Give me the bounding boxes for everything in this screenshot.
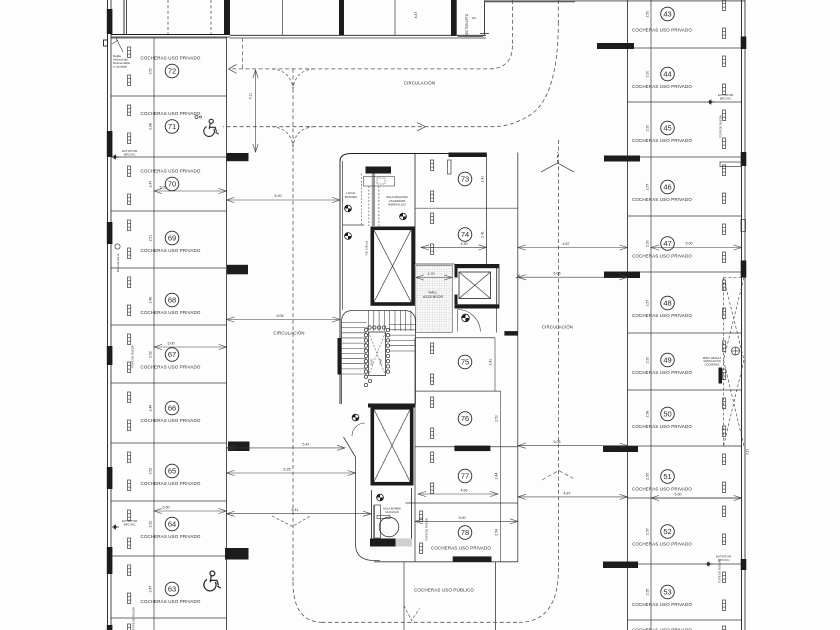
svg-text:2.52: 2.52 bbox=[149, 521, 153, 528]
svg-text:5.11: 5.11 bbox=[249, 93, 253, 99]
svg-text:3.11: 3.11 bbox=[746, 449, 750, 455]
svg-text:COCHERAS USO PRIVADO: COCHERAS USO PRIVADO bbox=[140, 169, 200, 174]
svg-text:COCHERAS USO PRIVADO: COCHERAS USO PRIVADO bbox=[632, 542, 692, 547]
svg-text:2.47: 2.47 bbox=[149, 586, 153, 593]
svg-text:73: 73 bbox=[461, 175, 469, 184]
svg-text:74: 74 bbox=[461, 230, 469, 239]
svg-text:70: 70 bbox=[168, 180, 176, 189]
svg-text:COCHERAS USO PRIVADO: COCHERAS USO PRIVADO bbox=[632, 487, 692, 492]
svg-text:2.55: 2.55 bbox=[646, 589, 650, 596]
bottom dashed arrow bbox=[404, 606, 420, 621]
hall ascensor floor bbox=[416, 266, 453, 333]
svg-text:SUBE: SUBE bbox=[371, 358, 374, 365]
fan basura 2 bbox=[345, 233, 352, 240]
svg-text:78: 78 bbox=[461, 528, 469, 537]
svg-text:P.B. 0.36 m2: P.B. 0.36 m2 bbox=[365, 240, 369, 255]
svg-text:47: 47 bbox=[663, 239, 671, 248]
stall 78 bbox=[420, 511, 499, 554]
svg-text:5.20: 5.20 bbox=[275, 194, 282, 198]
svg-text:2.46: 2.46 bbox=[149, 405, 153, 412]
fan stair door bbox=[352, 414, 359, 421]
svg-text:43: 43 bbox=[663, 10, 671, 19]
svg-text:2.52: 2.52 bbox=[149, 351, 153, 358]
stall 52 bbox=[632, 506, 726, 547]
stall 53 bbox=[632, 572, 726, 611]
svg-text:2.50: 2.50 bbox=[149, 68, 153, 75]
left aisle dim 6.41 bbox=[227, 508, 372, 516]
svg-text:72: 72 bbox=[168, 67, 176, 76]
svg-text:COCHERAS USO PRIVADO: COCHERAS USO PRIVADO bbox=[140, 481, 200, 486]
rejilla note bbox=[112, 38, 130, 69]
middle black bars bbox=[449, 153, 518, 562]
svg-text:2.41: 2.41 bbox=[489, 359, 493, 366]
right column black blocks bbox=[597, 43, 640, 568]
core sw boundary bbox=[344, 437, 381, 561]
right aisle dim 4.87 b bbox=[518, 491, 628, 499]
stall 73 bbox=[431, 160, 485, 202]
ventilation fan circle bbox=[732, 347, 740, 355]
stall 75 bbox=[431, 343, 493, 385]
stall 64 bbox=[128, 510, 201, 549]
dim 5.00 stall 47 bbox=[651, 242, 742, 251]
svg-text:2.41: 2.41 bbox=[481, 231, 485, 238]
handicap stall 71 bbox=[204, 119, 219, 136]
handicap stall 63 bbox=[204, 571, 221, 591]
svg-text:5.25: 5.25 bbox=[284, 467, 291, 471]
local basura bbox=[345, 174, 362, 227]
stall 77 bbox=[431, 452, 499, 494]
svg-text:5.06: 5.06 bbox=[554, 440, 561, 444]
svg-text:68: 68 bbox=[168, 296, 176, 305]
stall 65 bbox=[128, 452, 201, 491]
right wall niches bbox=[720, 162, 746, 232]
dim tick mid bbox=[516, 275, 520, 279]
svg-text:COCHERAS USO PRIVADO: COCHERAS USO PRIVADO bbox=[632, 197, 692, 202]
svg-text:CIRCULACIÓN: CIRCULACIÓN bbox=[542, 325, 573, 330]
svg-text:2.50: 2.50 bbox=[646, 11, 650, 18]
shaft upper bbox=[372, 228, 413, 304]
svg-text:45: 45 bbox=[663, 124, 671, 133]
svg-text:CIRCULACIÓN: CIRCULACIÓN bbox=[273, 331, 304, 336]
stall 47 bbox=[632, 224, 726, 263]
svg-text:63: 63 bbox=[168, 585, 176, 594]
svg-text:5.05: 5.05 bbox=[160, 186, 167, 190]
svg-text:2.50: 2.50 bbox=[646, 71, 650, 78]
svg-text:TOPE DE RUEDA: TOPE DE RUEDA bbox=[131, 345, 135, 368]
left aisle dim 5.05 bbox=[227, 314, 341, 322]
corner wall at sector box bbox=[480, 2, 575, 34]
svg-text:4.87: 4.87 bbox=[564, 491, 571, 495]
right aisle dim 4.87 a bbox=[518, 242, 628, 250]
svg-text:71: 71 bbox=[168, 122, 176, 131]
svg-text:BPC INC.: BPC INC. bbox=[720, 97, 732, 101]
svg-text:COCHERAS USO PRIVADO: COCHERAS USO PRIVADO bbox=[140, 365, 200, 370]
extintor right lower bbox=[706, 555, 732, 567]
top band floor slab bbox=[230, 0, 486, 38]
extintor left upper bbox=[112, 149, 138, 160]
svg-text:SECTOR APTO: SECTOR APTO bbox=[465, 13, 469, 36]
ramp projection zone bbox=[724, 278, 745, 447]
svg-text:TOPE DE RUEDA: TOPE DE RUEDA bbox=[719, 115, 723, 138]
stall 46 bbox=[632, 165, 726, 204]
left aisle centerline bbox=[293, 69, 322, 622]
svg-text:COCHERAS USO PRIVADO: COCHERAS USO PRIVADO bbox=[140, 248, 200, 253]
stall 44 bbox=[632, 56, 726, 95]
svg-text:TOPE DE RUEDA: TOPE DE RUEDA bbox=[718, 560, 722, 583]
right aisle arrow 1 bbox=[541, 163, 574, 172]
public area dashed boundary bbox=[322, 621, 520, 623]
stall 69 bbox=[128, 220, 201, 259]
svg-text:5.00: 5.00 bbox=[675, 493, 682, 497]
svg-text:COCHERAS USO PRIVADO: COCHERAS USO PRIVADO bbox=[431, 546, 491, 551]
local basura bottom wall bbox=[343, 224, 365, 226]
extintor right upper bbox=[708, 93, 734, 105]
svg-text:5.05: 5.05 bbox=[277, 314, 284, 318]
svg-text:BPC INC.: BPC INC. bbox=[124, 523, 136, 527]
fan sala bomba bbox=[377, 494, 384, 501]
svg-text:COCHERAS USO PÚBLICO: COCHERAS USO PÚBLICO bbox=[414, 587, 474, 593]
svg-text:TOPE DE RUEDA: TOPE DE RUEDA bbox=[132, 607, 136, 630]
svg-text:64: 64 bbox=[168, 520, 176, 529]
stall 72 bbox=[128, 47, 201, 86]
sala maquinas partition bbox=[372, 174, 374, 227]
sala bomba room bbox=[372, 488, 412, 546]
stall 73 74 box bbox=[415, 153, 518, 265]
svg-text:1.70: 1.70 bbox=[428, 272, 435, 276]
core left wall bbox=[338, 161, 343, 404]
stall 50 bbox=[632, 398, 726, 437]
svg-text:2.46: 2.46 bbox=[149, 297, 153, 304]
svg-text:TOPE DE RUEDA: TOPE DE RUEDA bbox=[425, 518, 429, 541]
right exterior wall bbox=[742, 0, 746, 630]
wall box detail bbox=[104, 40, 108, 46]
svg-text:4.47: 4.47 bbox=[414, 12, 418, 19]
svg-text:5.00: 5.00 bbox=[686, 242, 693, 246]
fan sala maquinas bbox=[400, 213, 407, 220]
svg-text:2.50: 2.50 bbox=[495, 415, 499, 422]
elevator shaft bbox=[455, 264, 500, 309]
shaft lower bbox=[372, 408, 411, 484]
svg-text:50: 50 bbox=[663, 410, 671, 419]
prev rejilla note bbox=[703, 356, 722, 384]
svg-text:76: 76 bbox=[461, 414, 469, 423]
svg-text:2.57: 2.57 bbox=[646, 300, 650, 307]
svg-text:2.50: 2.50 bbox=[646, 240, 650, 247]
dim 1.70 hall bbox=[416, 272, 452, 280]
core top wall bbox=[340, 154, 449, 162]
svg-text:66: 66 bbox=[168, 404, 176, 413]
svg-text:69: 69 bbox=[168, 234, 176, 243]
ramp lane dashes bbox=[168, 0, 211, 34]
partial stall below 53 bbox=[632, 626, 726, 630]
svg-text:COCHERAS USO PRIVADO: COCHERAS USO PRIVADO bbox=[632, 424, 692, 429]
stall 73 door rect bbox=[448, 160, 452, 174]
stall 49 bbox=[632, 341, 726, 380]
stall 43 bbox=[632, 0, 726, 39]
sector apto 5 box bbox=[451, 0, 485, 37]
svg-text:COCHERAS USO PRIVADO: COCHERAS USO PRIVADO bbox=[140, 111, 200, 116]
extintor left lower bbox=[112, 519, 138, 530]
stall 45 bbox=[632, 110, 726, 149]
svg-text:COCHERAS USO PRIVADO: COCHERAS USO PRIVADO bbox=[632, 28, 692, 33]
stair door swing bbox=[352, 423, 365, 436]
stall 51 bbox=[632, 454, 726, 493]
svg-text:2.68: 2.68 bbox=[149, 123, 153, 130]
svg-text:5.41: 5.41 bbox=[303, 442, 310, 446]
street edge line top bbox=[485, 0, 745, 2]
svg-text:49: 49 bbox=[663, 356, 671, 365]
svg-text:COCHERAS USO PRIVADO: COCHERAS USO PRIVADO bbox=[632, 254, 692, 259]
svg-text:COCHERAS USO PRIVADO: COCHERAS USO PRIVADO bbox=[140, 599, 200, 604]
stall 71 bbox=[128, 105, 201, 144]
middle dividers bbox=[374, 338, 518, 562]
svg-text:BAJA: BAJA bbox=[380, 359, 383, 365]
svg-text:COCHERAS USO PRIVADO: COCHERAS USO PRIVADO bbox=[140, 56, 200, 61]
stall 68 bbox=[128, 277, 201, 316]
right stall divider lines bbox=[628, 48, 742, 620]
stall 74 bbox=[431, 213, 485, 255]
left stall divider lines bbox=[111, 38, 227, 618]
svg-text:67: 67 bbox=[168, 350, 176, 359]
left stalls column lines bbox=[154, 37, 227, 630]
right wall black segments bbox=[741, 37, 747, 571]
svg-text:5.00: 5.00 bbox=[168, 342, 175, 346]
dim 5.00 stall 51 bbox=[651, 493, 742, 501]
right stalls column lines bbox=[628, 0, 652, 630]
svg-text:77: 77 bbox=[461, 472, 469, 481]
svg-text:HIDRAULICO: HIDRAULICO bbox=[388, 203, 407, 207]
svg-text:CIRCULACIÓN: CIRCULACIÓN bbox=[404, 81, 435, 86]
svg-text:COCHERAS USO PRIVADO: COCHERAS USO PRIVADO bbox=[632, 138, 692, 143]
stall 70 bbox=[128, 166, 201, 205]
stall 76 bbox=[431, 397, 499, 439]
stall 67 bbox=[128, 334, 201, 373]
svg-text:53: 53 bbox=[663, 588, 671, 597]
partial bottom stall wheel stop bbox=[128, 624, 131, 630]
svg-text:CLOACAS: CLOACAS bbox=[385, 510, 399, 514]
svg-text:4.87: 4.87 bbox=[563, 242, 570, 246]
left column black blocks bbox=[225, 153, 250, 560]
svg-text:75: 75 bbox=[461, 358, 469, 367]
svg-text:COCHERAS USO PRIVADO: COCHERAS USO PRIVADO bbox=[140, 418, 200, 423]
fan below elevator bbox=[462, 314, 470, 322]
svg-text:COCHERAS USO PRIVADO: COCHERAS USO PRIVADO bbox=[632, 84, 692, 89]
aisle width dim 5.11 bbox=[249, 70, 259, 152]
svg-text:COCHERAS: COCHERAS bbox=[705, 362, 720, 366]
svg-text:5.00: 5.00 bbox=[459, 516, 466, 520]
svg-text:2.41: 2.41 bbox=[481, 176, 485, 183]
right aisle dim 5.06 b bbox=[518, 440, 628, 448]
sala maquinas wall top bbox=[366, 167, 392, 174]
dim 5.00 stall 67 bbox=[154, 342, 227, 350]
svg-text:HALL: HALL bbox=[429, 291, 438, 295]
sala bomba gray strip bbox=[396, 539, 413, 547]
svg-text:51: 51 bbox=[663, 472, 671, 481]
right aisle centerline bbox=[519, 140, 558, 622]
svg-text:COCHERAS USO PRIVADO: COCHERAS USO PRIVADO bbox=[632, 370, 692, 375]
circulation top outer lane bbox=[223, 0, 558, 131]
left aisle dim 5.41 bbox=[227, 442, 346, 450]
svg-text:5.00: 5.00 bbox=[163, 506, 170, 510]
svg-text:COCHERAS USO PRIVADO: COCHERAS USO PRIVADO bbox=[632, 313, 692, 318]
stall 63 bbox=[128, 565, 201, 604]
svg-text:52: 52 bbox=[663, 527, 671, 536]
svg-text:BASURA: BASURA bbox=[345, 195, 357, 199]
svg-text:2.47: 2.47 bbox=[149, 181, 153, 188]
left aisle dim 5.20 bbox=[227, 194, 341, 203]
svg-text:5.06: 5.06 bbox=[554, 272, 561, 276]
svg-text:COCHERAS USO PRIVADO: COCHERAS USO PRIVADO bbox=[140, 310, 200, 315]
middle col outer line bbox=[517, 153, 519, 563]
svg-text:4.50: 4.50 bbox=[461, 489, 468, 493]
svg-text:2.52: 2.52 bbox=[149, 468, 153, 475]
svg-text:c/ candado: c/ candado bbox=[113, 65, 128, 69]
dim 5.00 stall 64 bbox=[154, 506, 227, 514]
svg-text:2.58: 2.58 bbox=[646, 411, 650, 418]
fan basura 1 bbox=[345, 205, 352, 212]
svg-text:46: 46 bbox=[663, 183, 671, 192]
svg-text:44: 44 bbox=[663, 70, 671, 79]
svg-text:6.41: 6.41 bbox=[292, 508, 299, 512]
sala maquinas room bbox=[364, 177, 408, 227]
right aisle arrow 2 bbox=[542, 471, 574, 481]
left aisle down arrow bbox=[272, 516, 310, 527]
svg-text:2.54: 2.54 bbox=[495, 529, 499, 536]
small circles stall 71 bbox=[195, 116, 198, 119]
ramp continuation dash bbox=[242, 38, 244, 69]
left aisle branch curves bbox=[272, 69, 314, 147]
svg-text:Boca de Arena: Boca de Arena bbox=[116, 253, 120, 272]
right aisle dim 5.06 bbox=[518, 272, 628, 280]
svg-text:2.44: 2.44 bbox=[495, 473, 499, 480]
svg-text:4.30: 4.30 bbox=[461, 242, 468, 246]
middle col lower right lines bbox=[495, 338, 501, 630]
svg-text:2.57: 2.57 bbox=[646, 528, 650, 535]
svg-text:48: 48 bbox=[663, 299, 671, 308]
line below elevator bbox=[496, 309, 498, 333]
stair bottom wall bbox=[368, 404, 416, 408]
public garage edge bbox=[403, 562, 405, 630]
hall top line bbox=[415, 263, 455, 265]
stairs bbox=[342, 311, 416, 405]
dim 4.50 stall 77 bbox=[418, 489, 498, 497]
dim 5.05 stall 70 bbox=[154, 186, 227, 194]
left exterior wall bbox=[108, 0, 112, 630]
svg-text:2.50: 2.50 bbox=[646, 357, 650, 364]
circulation top inner lane bbox=[229, 0, 513, 73]
svg-text:BPC INC.: BPC INC. bbox=[124, 153, 136, 157]
stall 66 bbox=[128, 392, 201, 431]
svg-text:65: 65 bbox=[168, 467, 176, 476]
svg-text:2.57: 2.57 bbox=[646, 184, 650, 191]
stall 48 bbox=[632, 280, 726, 319]
left aisle dim 5.25 bbox=[227, 467, 356, 475]
door swing below elevator bbox=[458, 310, 481, 332]
svg-text:COCHERAS USO PRIVADO: COCHERAS USO PRIVADO bbox=[140, 534, 200, 539]
boca de arena bbox=[115, 244, 120, 272]
svg-text:ASCENSOR: ASCENSOR bbox=[423, 295, 444, 299]
dim 5.00 stall 78 bbox=[415, 516, 518, 524]
dim 4.30 stall 74 bbox=[421, 242, 487, 250]
entry ramp walls bbox=[111, 0, 230, 37]
svg-text:2.51: 2.51 bbox=[149, 235, 153, 242]
svg-text:2.55: 2.55 bbox=[646, 473, 650, 480]
svg-text:2.50: 2.50 bbox=[646, 125, 650, 132]
sala bomba bottom wall bbox=[370, 539, 396, 547]
left wall black segments bbox=[107, 9, 113, 630]
svg-text:COCHERAS USO PRIVADO: COCHERAS USO PRIVADO bbox=[632, 602, 692, 607]
